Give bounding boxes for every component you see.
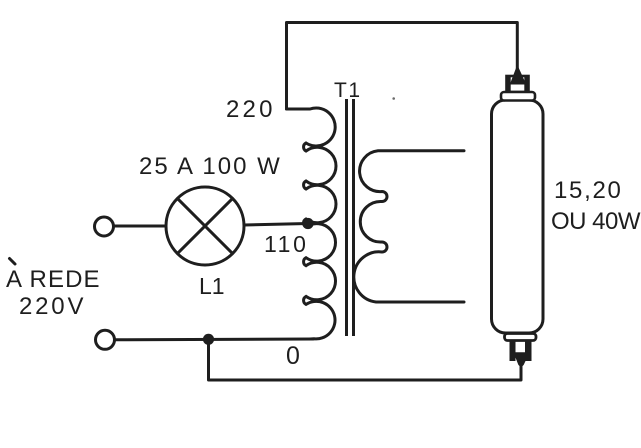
transformer T1 secondary winding bbox=[354, 151, 464, 302]
svg-text:220: 220 bbox=[226, 96, 276, 123]
fluorescent lamp top pin (filled) bbox=[511, 66, 526, 84]
fluorescent lamp tube body bbox=[492, 100, 544, 333]
transformer T1 core bbox=[347, 99, 354, 336]
lamp L1 (circle with X) bbox=[166, 187, 244, 265]
fluorescent lamp bottom pin (filled) bbox=[515, 353, 529, 367]
node 110 tap junction bbox=[302, 218, 313, 229]
svg-text:0: 0 bbox=[286, 342, 300, 370]
wire bottom rail from neutral junction to fluorescent lamp bottom bbox=[209, 339, 522, 380]
terminal lower mains input bbox=[96, 330, 115, 349]
svg-text:220V: 220V bbox=[19, 293, 86, 320]
svg-text:25 A 100 W: 25 A 100 W bbox=[139, 153, 282, 180]
fluorescent lamp top cap flange bbox=[501, 92, 535, 101]
terminal upper mains input bbox=[95, 217, 114, 236]
wire lower mains lead to 0 tap bbox=[115, 338, 313, 342]
fluorescent lamp bottom cap collar bbox=[510, 341, 532, 362]
wire lamp L1 to 110 tap bbox=[244, 224, 308, 226]
fluorescent lamp top cap collar bbox=[507, 76, 529, 92]
svg-text:110: 110 bbox=[264, 231, 308, 257]
transformer T1 primary winding bbox=[287, 108, 336, 339]
svg-text:T1: T1 bbox=[334, 79, 362, 102]
node neutral junction bbox=[203, 334, 214, 345]
svg-text:OU 40W: OU 40W bbox=[551, 208, 641, 235]
scan speckle near T1 bbox=[392, 97, 395, 100]
fluorescent lamp bottom cap flange bbox=[505, 334, 537, 341]
svg-text:L1: L1 bbox=[199, 273, 225, 299]
svg-text:A REDE: A REDE bbox=[6, 266, 101, 293]
wire top rail from 220 tap to fluorescent lamp top bbox=[287, 23, 518, 110]
svg-text:15,20: 15,20 bbox=[554, 177, 623, 204]
wire upper mains lead to lamp L1 bbox=[114, 225, 166, 228]
